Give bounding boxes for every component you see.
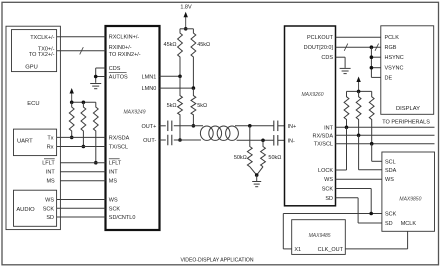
- wire TXCLK: [57, 36, 106, 38]
- svg-text:SD: SD: [385, 221, 393, 227]
- svg-text:OUT-: OUT-: [143, 138, 156, 144]
- svg-text:LFLT: LFLT: [42, 161, 55, 167]
- svg-text:50kΩ: 50kΩ: [268, 155, 281, 161]
- svg-text:SCK: SCK: [109, 206, 121, 212]
- resistor pullup SDA: [356, 91, 361, 135]
- wire SCK: [57, 207, 106, 209]
- wire PCLKOUT: [336, 36, 381, 38]
- wire OUT+: [160, 125, 166, 127]
- wire HSYNC: [371, 56, 380, 58]
- svg-text:MS: MS: [109, 179, 118, 185]
- svg-text:HSYNC: HSYNC: [385, 55, 404, 61]
- svg-text:RX/SDA: RX/SDA: [313, 133, 334, 139]
- wire IN+: [278, 125, 285, 127]
- svg-text:ECU: ECU: [27, 101, 39, 107]
- junction SCL-pullup: [370, 142, 374, 146]
- junction AUTOS-ground: [94, 75, 98, 79]
- junction LMN1: [178, 75, 182, 79]
- ground (CDS): [340, 67, 351, 69]
- svg-text:MAX9260: MAX9260: [302, 92, 324, 98]
- svg-text:LMN1: LMN1: [142, 74, 157, 80]
- svg-text:Rx: Rx: [47, 145, 54, 151]
- wire twist to IN+: [235, 125, 274, 127]
- svg-text:AUTOS: AUTOS: [109, 75, 128, 81]
- svg-text:DE: DE: [385, 75, 393, 81]
- resistor R 45k left: [178, 29, 183, 77]
- svg-text:45kΩ: 45kΩ: [197, 42, 210, 48]
- junction OUT- / 5k: [178, 138, 182, 142]
- svg-text:50kΩ: 50kΩ: [234, 155, 247, 161]
- wire OUT+ to twist: [174, 125, 203, 127]
- junction rail right: [357, 90, 361, 94]
- svg-text:45kΩ: 45kΩ: [164, 42, 177, 48]
- wire SD: [57, 216, 106, 218]
- wire 1.8V rail: [180, 28, 193, 30]
- wire LMN0: [160, 87, 194, 89]
- bus slash TX: [80, 47, 84, 54]
- junction SDA-pullup: [357, 134, 361, 138]
- capacitor OUT-: [167, 135, 169, 146]
- wire 50k join left: [250, 167, 257, 175]
- junction IN- / 50k: [261, 139, 265, 143]
- wire UART Tx: [57, 136, 106, 138]
- svg-text:TX/SCL: TX/SCL: [314, 142, 333, 148]
- wire pullup rail right: [347, 90, 372, 92]
- clock generator U4 MAX9485: [292, 220, 346, 255]
- wire IN-: [278, 139, 285, 141]
- svg-text:MS: MS: [46, 179, 55, 185]
- svg-text:RGB: RGB: [385, 45, 397, 51]
- bus slash DOUT: [344, 44, 348, 51]
- wire DE: [371, 76, 380, 78]
- wire OUT-: [160, 139, 166, 141]
- wire UART Rx: [57, 146, 106, 148]
- block ECU: [6, 26, 60, 229]
- svg-text:LOCK: LOCK: [318, 168, 333, 174]
- svg-text:5kΩ: 5kΩ: [167, 103, 177, 109]
- bus slash RGB: [375, 44, 379, 51]
- block GPU: [12, 30, 57, 72]
- wire to ground: [256, 175, 258, 181]
- wire DOUT bus: [336, 46, 381, 48]
- wire INT: [60, 171, 105, 173]
- svg-text:5kΩ: 5kΩ: [197, 103, 207, 109]
- junction INT-pullup: [345, 126, 349, 130]
- resistor pullup Tx: [69, 102, 74, 137]
- junction VSYNC: [370, 66, 374, 70]
- svg-text:AUDIO: AUDIO: [16, 207, 35, 213]
- wire TX0-TX2 bus: [57, 50, 106, 52]
- svg-text:TXCLK+/-: TXCLK+/-: [30, 35, 54, 41]
- capacitor IN-: [273, 135, 275, 146]
- svg-text:SD: SD: [325, 196, 333, 202]
- wire CDS to ground: [336, 56, 346, 58]
- svg-text:PCLK: PCLK: [385, 35, 400, 41]
- svg-text:INT: INT: [324, 125, 334, 131]
- svg-text:CDS: CDS: [321, 55, 333, 61]
- svg-text:MCLK: MCLK: [401, 221, 417, 227]
- svg-text:MAX9485: MAX9485: [309, 233, 331, 239]
- junction rail-R2: [82, 101, 86, 105]
- block AUDIO: [14, 190, 57, 226]
- svg-text:MAX9850: MAX9850: [399, 197, 421, 203]
- svg-text:LFLT: LFLT: [109, 161, 122, 167]
- wire SCK down: [336, 188, 372, 190]
- supply arrow (UART pullups): [71, 92, 73, 102]
- wire 50k join right: [257, 167, 263, 175]
- svg-text:SD/CNTL0: SD/CNTL0: [109, 215, 136, 221]
- svg-text:TO RXIN2+/-: TO RXIN2+/-: [109, 52, 141, 58]
- svg-text:GPU: GPU: [25, 65, 38, 71]
- wire CLK_OUT to MCLK: [345, 248, 407, 250]
- svg-text:WS: WS: [109, 198, 118, 204]
- svg-text:UART: UART: [17, 139, 33, 145]
- svg-text:CLK_OUT: CLK_OUT: [318, 247, 344, 253]
- wire pullup rail: [72, 101, 96, 103]
- svg-text:TX/SCL: TX/SCL: [109, 145, 128, 151]
- resistor R 45k right: [191, 29, 196, 88]
- resistor R 50k left: [247, 126, 252, 167]
- svg-text:VSYNC: VSYNC: [385, 66, 404, 72]
- wire MS: [60, 180, 105, 182]
- svg-text:SDA: SDA: [385, 168, 397, 174]
- svg-text:IN-: IN-: [288, 138, 296, 144]
- junction rail-arrow: [70, 101, 74, 105]
- svg-text:DISPLAY: DISPLAY: [396, 106, 420, 112]
- junction DOUT bus: [370, 45, 374, 49]
- wire CDS to ground: [96, 67, 106, 69]
- junction Rx-pullup: [82, 145, 86, 149]
- svg-text:WS: WS: [45, 198, 54, 204]
- junction 50k common: [255, 173, 259, 177]
- svg-text:CDS: CDS: [109, 66, 121, 72]
- wire SD down: [336, 197, 359, 199]
- svg-text:RX/SDA: RX/SDA: [109, 135, 130, 141]
- svg-text:SCK: SCK: [322, 187, 334, 193]
- capacitor OUT+: [167, 121, 169, 132]
- svg-text:PCLKOUT: PCLKOUT: [307, 35, 334, 41]
- capacitor IN+: [273, 121, 275, 132]
- svg-text:SCK: SCK: [43, 206, 55, 212]
- svg-text:INT: INT: [109, 170, 119, 176]
- junction OUT+ / 5k: [192, 124, 196, 128]
- svg-text:TO PERIPHERALS: TO PERIPHERALS: [382, 119, 430, 125]
- wire twist to IN-: [237, 139, 274, 141]
- wire LOCK to INT: [336, 169, 347, 171]
- bus vertical: [370, 47, 372, 77]
- svg-text:MAX9249: MAX9249: [124, 110, 146, 116]
- audio DAC U3 MAX9850: [382, 152, 435, 231]
- junction SCK: [369, 212, 373, 216]
- wire SCL to MAX9850: [371, 144, 373, 162]
- svg-text:SCL: SCL: [385, 159, 396, 165]
- ground (termination): [252, 181, 261, 183]
- junction LFLT-pullup: [94, 161, 98, 165]
- svg-text:RXCLKIN+/-: RXCLKIN+/-: [109, 34, 140, 40]
- svg-text:WS: WS: [324, 177, 333, 183]
- wire WS: [57, 199, 106, 201]
- block DISPLAY: [381, 26, 434, 115]
- svg-text:SD: SD: [46, 215, 54, 221]
- deserializer U2 MAX9260: [285, 26, 336, 206]
- wire OUT- to twist: [174, 139, 201, 141]
- wire LFLT: [60, 162, 105, 164]
- wire LMN1: [160, 75, 181, 77]
- ground (CDS/AUTOS): [90, 83, 101, 85]
- svg-text:VIDEO-DISPLAY APPLICATION: VIDEO-DISPLAY APPLICATION: [180, 257, 253, 263]
- node LFLT label (ECU side): [44, 158, 55, 160]
- resistor pullup INT: [344, 91, 349, 127]
- svg-text:WS: WS: [385, 177, 394, 183]
- wire RX/SDA to peripherals: [336, 134, 435, 136]
- resistor pullup LFLT: [93, 102, 98, 162]
- wire INT to peripherals: [336, 126, 435, 128]
- block UART: [14, 129, 57, 156]
- wire TX/SCL to peripherals: [336, 143, 435, 145]
- resistor pullup Rx: [81, 102, 86, 146]
- resistor R 5k right: [191, 88, 196, 126]
- twisted-pair cable: [200, 126, 213, 140]
- svg-text:DOUT[20:0]: DOUT[20:0]: [304, 45, 334, 51]
- svg-text:TO TX2+/-: TO TX2+/-: [29, 52, 55, 58]
- wire SCK bus to X1 and MAX9850: [283, 213, 382, 215]
- junction LMN0: [192, 86, 196, 90]
- svg-text:1.8V: 1.8V: [180, 4, 192, 10]
- serializer U1 MAX9249: [106, 26, 160, 230]
- junction HSYNC: [370, 55, 374, 59]
- svg-text:OUT+: OUT+: [141, 124, 156, 130]
- svg-text:X1: X1: [294, 247, 301, 253]
- svg-text:IN+: IN+: [288, 124, 297, 130]
- svg-text:SCK: SCK: [385, 212, 397, 218]
- resistor pullup SCL: [369, 91, 374, 143]
- wire AUTOS: [96, 76, 106, 78]
- junction IN+ / 50k: [248, 124, 252, 128]
- wire to X1: [282, 214, 284, 249]
- junction 1.8V rail: [184, 27, 188, 31]
- svg-text:INT: INT: [46, 170, 56, 176]
- junction Tx-pullup: [70, 136, 74, 140]
- wire SDA to MAX9850: [358, 135, 360, 170]
- supply arrow (I2C pullups): [358, 81, 360, 92]
- wire VSYNC: [371, 67, 380, 69]
- resistor R 5k left: [178, 76, 183, 140]
- wire WS to MAX9850: [336, 178, 382, 180]
- svg-text:RXIN0+/-: RXIN0+/-: [109, 45, 132, 51]
- svg-text:Tx: Tx: [47, 135, 53, 141]
- resistor R 50k right: [261, 140, 266, 166]
- svg-text:LMN0: LMN0: [142, 86, 157, 92]
